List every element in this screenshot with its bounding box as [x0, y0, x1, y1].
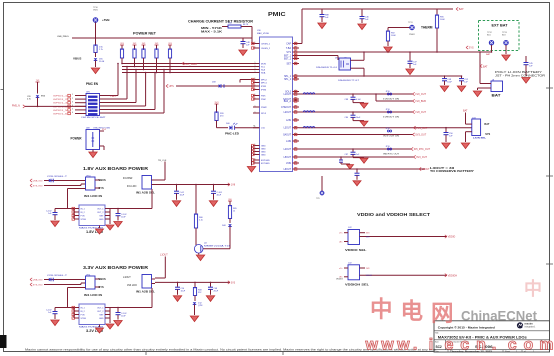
- svg-text:1: 1: [255, 153, 256, 155]
- svg-text:PSM2: PSM2: [261, 107, 268, 109]
- svg-text:CHARGE CURRENT SET RESISTOR: CHARGE CURRENT SET RESISTOR: [188, 19, 253, 24]
- svg-text:9: 9: [295, 47, 296, 49]
- svg-text:1k: 1k: [233, 211, 235, 213]
- svg-text:10uF: 10uF: [181, 290, 186, 292]
- svg-text:9: 9: [295, 100, 296, 102]
- svg-text:VDDIO: VDDIO: [366, 275, 373, 277]
- svg-text:IN1 BSR: IN1 BSR: [123, 177, 133, 180]
- svg-text:Thursday, November 12, 2015: Thursday, November 12, 2015: [450, 351, 493, 353]
- svg-text:1: 1: [72, 94, 73, 96]
- svg-text:1: 1: [255, 126, 256, 128]
- svg-text:VBUS: VBUS: [99, 277, 106, 281]
- svg-text:GPIO1_5: GPIO1_5: [53, 110, 68, 112]
- svg-text:VDDIO SEL: VDDIO SEL: [345, 248, 367, 252]
- svg-text:0.1uF: 0.1uF: [356, 99, 362, 101]
- svg-text:USB_PBUS: USB_PBUS: [57, 36, 69, 38]
- svg-text:SAOUT: SAOUT: [283, 134, 292, 137]
- svg-text:POK: POK: [81, 215, 86, 217]
- svg-text:L3OUT: L3OUT: [284, 128, 292, 130]
- svg-text:o: o: [524, 337, 534, 354]
- svg-text:BAT: BAT: [484, 123, 489, 126]
- svg-text:sYs: sYs: [339, 268, 342, 270]
- svg-text:53.6E: 53.6E: [99, 61, 105, 63]
- svg-text:9: 9: [295, 90, 296, 92]
- svg-text:1: 1: [255, 162, 256, 164]
- svg-text:4.7k: 4.7k: [27, 99, 31, 101]
- svg-text:40uF: 40uF: [217, 194, 222, 196]
- svg-text:SIS406DN T1-G1: SIS406DN T1-G1: [316, 67, 338, 69]
- svg-text:w: w: [396, 337, 410, 354]
- svg-text:GND: GND: [261, 149, 266, 151]
- svg-text:VDDIOH: VDDIOH: [448, 274, 458, 277]
- svg-text:SPL_1: SPL_1: [284, 76, 292, 78]
- svg-text:PMC EN: PMC EN: [86, 82, 99, 86]
- svg-text:CRL3206L-T: CRL3206L-T: [47, 275, 68, 277]
- svg-text:EXPGND: EXPGND: [261, 160, 270, 162]
- svg-text:9: 9: [295, 140, 296, 142]
- svg-text:SLA: SLA: [261, 69, 266, 72]
- svg-text:9: 9: [295, 93, 296, 95]
- svg-text:C87: C87: [345, 154, 348, 156]
- svg-text:9: 9: [295, 126, 296, 128]
- svg-text:9V3_OUT: 9V3_OUT: [416, 156, 427, 159]
- svg-text:IN1 LDO IN: IN1 LDO IN: [84, 194, 102, 198]
- svg-text:+5VB: +5VB: [102, 18, 110, 22]
- svg-text:9: 9: [295, 75, 296, 77]
- svg-text:2: 2: [72, 98, 73, 100]
- svg-text:1V8OUT UN: 1V8OUT UN: [383, 116, 400, 118]
- svg-text:1: 1: [255, 85, 256, 87]
- svg-text:1: 1: [255, 98, 256, 100]
- svg-text:GND: GND: [261, 155, 266, 157]
- svg-text:PMC_WDAT: PMC_WDAT: [184, 63, 198, 66]
- svg-text:10uF: 10uF: [180, 194, 185, 196]
- svg-text:w: w: [380, 337, 394, 354]
- svg-text:SYS: SYS: [99, 285, 104, 289]
- svg-text:IN5 RTC OUT: IN5 RTC OUT: [383, 153, 400, 155]
- svg-text:c: c: [460, 337, 469, 354]
- svg-text:BLU: BLU: [487, 34, 491, 36]
- svg-text:L3OUT: L3OUT: [422, 168, 430, 171]
- svg-text:L1OUT: L1OUT: [123, 276, 131, 279]
- svg-text:6: 6: [72, 112, 73, 114]
- svg-text:1: 1: [255, 144, 256, 146]
- svg-text:SYS: SYS: [485, 133, 490, 136]
- svg-text:VDDIO: VDDIO: [336, 279, 343, 281]
- svg-text:MMBT2222A T13: MMBT2222A T13: [204, 244, 231, 247]
- svg-text:9: 9: [295, 62, 296, 64]
- svg-text:GPIO1_6: GPIO1_6: [53, 114, 68, 116]
- svg-text:1: 1: [255, 81, 256, 83]
- svg-text:1: 1: [255, 150, 256, 152]
- svg-text:IPW5: IPW5: [261, 86, 267, 88]
- svg-text:GND: GND: [261, 146, 266, 148]
- svg-text:BAT: BAT: [459, 7, 464, 11]
- svg-text:Size: Size: [435, 342, 439, 344]
- svg-text:20uF: 20uF: [214, 290, 219, 292]
- svg-text:USB_5V0: USB_5V0: [33, 280, 43, 282]
- svg-text:SV3_OUT: SV3_OUT: [415, 134, 426, 137]
- svg-text:1V0_BUB: 1V0_BUB: [415, 100, 426, 103]
- svg-text:3V3: 3V3: [231, 282, 236, 285]
- svg-text:GND: GND: [99, 318, 104, 320]
- svg-text:L5IN: L5IN: [286, 163, 291, 165]
- svg-text:sYs: sYs: [339, 233, 342, 235]
- svg-text:L5OUT: L5OUT: [284, 157, 292, 159]
- svg-text:5.1k: 5.1k: [199, 220, 203, 222]
- svg-text:9: 9: [295, 119, 296, 121]
- svg-text:SDA: SDA: [261, 72, 266, 75]
- svg-text:100K: 100K: [391, 35, 396, 37]
- svg-text:POK: POK: [81, 314, 86, 316]
- svg-text:5: 5: [72, 109, 73, 111]
- svg-text:MPC2: MPC2: [261, 80, 268, 82]
- svg-text:10uF: 10uF: [447, 82, 452, 84]
- svg-text:SYS: SYS: [469, 47, 474, 50]
- svg-text:IN1 LDO IN: IN1 LDO IN: [84, 293, 102, 297]
- svg-text:9: 9: [295, 78, 296, 80]
- svg-text:1: 1: [255, 42, 256, 44]
- svg-text:CHGIN_2: CHGIN_2: [261, 48, 271, 50]
- svg-text:THERM: THERM: [421, 26, 433, 30]
- svg-text:sEs: sEs: [339, 241, 342, 243]
- svg-text:w: w: [365, 337, 379, 354]
- svg-text:MPC1: MPC1: [261, 83, 268, 85]
- svg-text:10uF: 10uF: [121, 217, 126, 219]
- svg-text:1.8V AUX BOARD POWER: 1.8V AUX BOARD POWER: [83, 166, 149, 171]
- svg-text:IN5_RTC_OUT: IN5_RTC_OUT: [414, 148, 431, 151]
- svg-text:9: 9: [295, 111, 296, 113]
- svg-text:CAP: CAP: [286, 43, 291, 46]
- svg-text:VBUS: VBUS: [99, 178, 106, 182]
- svg-text:1: 1: [255, 68, 256, 70]
- svg-text:9: 9: [295, 42, 296, 44]
- svg-text:EXTGND: EXTGND: [261, 163, 270, 165]
- svg-text:1: 1: [255, 71, 256, 73]
- svg-text:JST - PH 2mm CONNECTOR: JST - PH 2mm CONNECTOR: [495, 74, 545, 77]
- svg-text:3V3 OUT UN: 3V3 OUT UN: [383, 135, 400, 137]
- svg-text:中: 中: [524, 278, 542, 299]
- svg-text:MON: MON: [261, 64, 266, 66]
- svg-text:BAT: BAT: [492, 93, 501, 97]
- svg-text:9: 9: [295, 148, 296, 150]
- svg-text:88.7K: 88.7K: [243, 24, 249, 26]
- svg-text:L2IN: L2IN: [286, 120, 291, 122]
- svg-text:CHGOUT: CHGOUT: [281, 107, 292, 109]
- svg-text:PV3_OUT: PV3_OUT: [416, 127, 427, 130]
- svg-text:9: 9: [295, 98, 296, 100]
- svg-text:BAT: BAT: [463, 110, 468, 113]
- svg-text:1: 1: [255, 147, 256, 149]
- svg-text:ChinaECNet: ChinaECNet: [461, 309, 537, 324]
- svg-text:1: 1: [255, 78, 256, 80]
- svg-text:L4OUT: L4OUT: [284, 149, 292, 151]
- svg-text:1V0OUT UN: 1V0OUT UN: [383, 98, 400, 100]
- svg-text:IN1 A2B SEL: IN1 A2B SEL: [136, 289, 155, 293]
- svg-text:1: 1: [255, 112, 256, 114]
- svg-text:IN1 LDO: IN1 LDO: [127, 185, 136, 188]
- svg-text:GND: GND: [99, 219, 104, 221]
- svg-text:MAX - 5.1K: MAX - 5.1K: [201, 30, 223, 34]
- svg-text:TR_CLK: TR_CLK: [158, 160, 167, 162]
- svg-text:1: 1: [255, 94, 256, 96]
- svg-text:10uF: 10uF: [121, 316, 126, 318]
- svg-text:9: 9: [295, 57, 296, 59]
- svg-text:CRL3206L-T: CRL3206L-T: [47, 176, 68, 178]
- svg-text:9: 9: [295, 54, 296, 56]
- svg-text:SYS: SYS: [286, 52, 291, 54]
- svg-text:9: 9: [295, 168, 296, 170]
- svg-text:VBUS: VBUS: [73, 57, 81, 61]
- svg-text:SPL3: SPL3: [261, 113, 267, 115]
- svg-text:i: i: [429, 337, 433, 354]
- svg-text:OUT_1: OUT_1: [97, 307, 104, 309]
- svg-text:IN1 A2B SEL: IN1 A2B SEL: [136, 190, 155, 194]
- svg-text:BST_2: BST_2: [284, 59, 292, 61]
- svg-text:L6OUT: L6OUT: [284, 169, 292, 171]
- svg-text:SYS_5V0: SYS_5V0: [33, 285, 43, 287]
- svg-text:.: .: [413, 337, 417, 354]
- svg-text:MAX_VDDE: MAX_VDDE: [257, 32, 270, 35]
- svg-text:IPW6: IPW6: [261, 90, 267, 92]
- svg-text:OUT_2: OUT_2: [97, 212, 104, 214]
- svg-text:USB_5V0: USB_5V0: [33, 181, 43, 183]
- svg-text:9: 9: [295, 106, 296, 108]
- svg-text:C84: C84: [345, 117, 348, 119]
- svg-text:BAT: BAT: [483, 65, 488, 68]
- svg-text:1V8_OUT: 1V8_OUT: [415, 111, 426, 114]
- svg-text:JP16: JP16: [386, 91, 390, 93]
- svg-text:OUT_2: OUT_2: [97, 311, 104, 313]
- svg-text:n: n: [476, 337, 486, 354]
- svg-text:CHGIN_1: CHGIN_1: [261, 44, 271, 46]
- svg-text:GPIO1_1: GPIO1_1: [53, 96, 68, 98]
- svg-text:1: 1: [255, 47, 256, 49]
- svg-text:VDDIO and VDDIOH SELECT: VDDIO and VDDIOH SELECT: [357, 212, 431, 217]
- svg-text:e: e: [445, 337, 454, 354]
- svg-text:BLR_A: BLR_A: [284, 100, 292, 103]
- svg-text:9: 9: [295, 133, 296, 135]
- svg-text:L2OUT: L2OUT: [284, 112, 292, 114]
- svg-text:100K: 100K: [440, 19, 445, 21]
- svg-text:c: c: [508, 337, 517, 354]
- svg-text:Q7M: Q7M: [198, 305, 203, 307]
- svg-text:T-BA: T-BA: [286, 47, 292, 50]
- svg-text:TO CONSERVE BATTERY: TO CONSERVE BATTERY: [430, 170, 474, 173]
- svg-text:GPIO1_2: GPIO1_2: [53, 99, 68, 101]
- svg-text:1V8: 1V8: [231, 184, 236, 187]
- svg-text:PSM: PSM: [261, 99, 266, 101]
- svg-text:C88: C88: [345, 99, 348, 101]
- svg-text:m: m: [539, 337, 553, 354]
- svg-text:LCD: LCD: [261, 128, 266, 130]
- svg-text:PMER: PMER: [409, 34, 415, 36]
- svg-text:3: 3: [72, 101, 73, 103]
- svg-text:JP16: JP16: [386, 128, 390, 130]
- svg-text:1V0_OUT: 1V0_OUT: [415, 93, 426, 96]
- svg-text:BAT: BAT: [486, 53, 491, 56]
- svg-text:SIS406DN TT-GT: SIS406DN TT-GT: [338, 80, 360, 82]
- svg-text:OUT_1: OUT_1: [97, 208, 104, 210]
- svg-text:VDDIO: VDDIO: [448, 236, 456, 239]
- svg-text:PMC-LED: PMC-LED: [225, 131, 240, 135]
- svg-text:VDDIOH SEL: VDDIOH SEL: [345, 283, 369, 287]
- svg-text:电: 电: [401, 299, 424, 324]
- svg-text:EXT BAT: EXT BAT: [492, 24, 508, 28]
- svg-text:2.7k: 2.7k: [99, 49, 103, 51]
- svg-text:SYS: SYS: [99, 186, 104, 190]
- svg-text:PM5_N: PM5_N: [12, 105, 20, 108]
- svg-text:1: 1: [255, 65, 256, 67]
- svg-text:DM 3M SPCE-SMT: DM 3M SPCE-SMT: [82, 117, 107, 119]
- svg-text:L1OUT: L1OUT: [160, 254, 168, 257]
- svg-text:中: 中: [370, 297, 393, 322]
- svg-text:GPIO1_3: GPIO1_3: [53, 103, 68, 105]
- svg-text:9: 9: [295, 162, 296, 164]
- svg-text:JN3 LDO: JN3 LDO: [127, 284, 137, 287]
- svg-text:integrated.: integrated.: [525, 326, 536, 329]
- svg-text:JP16: JP16: [386, 146, 390, 148]
- svg-text:1: 1: [255, 88, 256, 90]
- svg-text:POLY LI-ION BATTERY: POLY LI-ION BATTERY: [495, 71, 543, 74]
- svg-text:LION SEL: LION SEL: [473, 137, 487, 139]
- svg-text:L1OUT: L1OUT: [284, 94, 292, 96]
- svg-text:STDB: STDB: [81, 219, 87, 221]
- svg-text:.: .: [492, 337, 496, 354]
- svg-text:PMC1: PMC1: [110, 96, 117, 98]
- svg-text:9: 9: [295, 51, 296, 53]
- svg-text:网: 网: [431, 301, 454, 326]
- svg-text:SET: SET: [287, 64, 292, 66]
- svg-text:3.3V AUX BOARD POWER: 3.3V AUX BOARD POWER: [83, 265, 149, 270]
- svg-text:SPL_2: SPL_2: [284, 79, 292, 81]
- svg-text:STDB: STDB: [81, 318, 87, 320]
- svg-text:PMIC: PMIC: [268, 12, 286, 18]
- svg-text:UPS: UPS: [169, 85, 174, 88]
- svg-text:1: 1: [255, 62, 256, 64]
- svg-text:BST_1: BST_1: [284, 56, 292, 58]
- svg-text:SYS_5V0: SYS_5V0: [33, 186, 43, 188]
- svg-text:POWER: POWER: [71, 137, 83, 141]
- svg-text:L4IN: L4IN: [286, 141, 291, 143]
- svg-text:POWER NET: POWER NET: [133, 31, 157, 35]
- svg-text:BLK: BLK: [502, 34, 506, 36]
- svg-text:1: 1: [255, 106, 256, 108]
- svg-text:GND: GND: [261, 152, 266, 154]
- svg-text:1: 1: [255, 159, 256, 161]
- svg-text:9: 9: [295, 156, 296, 158]
- svg-text:JP16: JP16: [386, 109, 390, 111]
